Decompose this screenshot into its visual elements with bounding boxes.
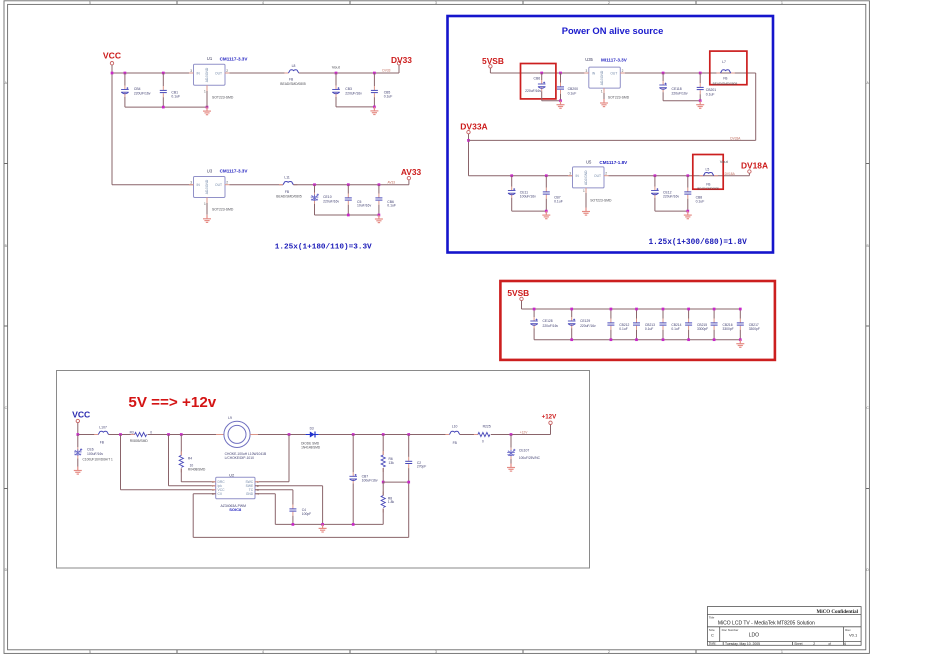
svg-text:220uF/16v: 220uF/16v [663, 195, 679, 199]
svg-text:220uF/16v: 220uF/16v [672, 91, 688, 95]
svg-text:5: 5 [89, 650, 91, 654]
svg-text:2: 2 [605, 172, 607, 176]
svg-text:L11: L11 [284, 175, 290, 179]
svg-text:U2: U2 [229, 472, 235, 477]
svg-text:5VSB: 5VSB [507, 288, 529, 298]
svg-text:100uF/16v: 100uF/16v [87, 452, 103, 456]
svg-text:3: 3 [569, 172, 571, 176]
svg-text:2: 2 [813, 642, 815, 646]
svg-text:Tuesday, May 10, 2005: Tuesday, May 10, 2005 [725, 642, 760, 646]
svg-text:DV18A: DV18A [741, 160, 768, 170]
svg-text:0.1uF: 0.1uF [554, 199, 563, 203]
svg-text:1: 1 [204, 202, 206, 206]
svg-text:CE118: CE118 [672, 87, 682, 91]
svg-text:CB201: CB201 [706, 88, 716, 92]
svg-text:4: 4 [262, 1, 264, 5]
svg-text:DV33A: DV33A [730, 136, 741, 140]
svg-text:5: 5 [89, 1, 91, 5]
svg-text:0.1uF: 0.1uF [568, 91, 577, 95]
svg-text:ADJ/GND: ADJ/GND [205, 67, 209, 82]
svg-text:Sheet: Sheet [794, 642, 802, 646]
svg-text:100uF/16v: 100uF/16v [362, 478, 378, 482]
svg-text:L8: L8 [292, 64, 296, 68]
svg-text:13k: 13k [389, 461, 395, 465]
svg-text:220uF/16v: 220uF/16v [525, 89, 541, 93]
svg-text:0.1uF: 0.1uF [171, 94, 180, 98]
svg-text:MiCO LCD TV - MediaTek MT8205: MiCO LCD TV - MediaTek MT8205 Solution [718, 621, 815, 627]
svg-text:+12V: +12V [520, 431, 528, 435]
svg-text:SOT223-SMD: SOT223-SMD [212, 208, 234, 212]
svg-text:OUT: OUT [215, 183, 222, 187]
svg-text:3: 3 [190, 181, 192, 185]
svg-text:220uF/16v: 220uF/16v [323, 199, 339, 203]
svg-text:Rev: Rev [845, 628, 851, 632]
svg-text:0: 0 [150, 430, 152, 434]
svg-text:L9: L9 [228, 416, 232, 420]
svg-text:Date:: Date: [709, 642, 717, 646]
svg-text:2: 2 [226, 69, 228, 73]
svg-text:of: of [828, 642, 831, 646]
svg-text:CB3: CB3 [345, 87, 352, 91]
svg-text:OUT: OUT [594, 174, 601, 178]
svg-text:Vout: Vout [332, 64, 341, 69]
svg-text:VCC: VCC [103, 51, 121, 61]
svg-text:ADJ/GND: ADJ/GND [600, 70, 604, 85]
svg-text:0.1uF: 0.1uF [619, 327, 627, 331]
svg-text:BEAD/SMD/0805: BEAD/SMD/0805 [276, 195, 302, 199]
svg-text:VCC: VCC [72, 410, 90, 420]
svg-text:CB4: CB4 [134, 87, 141, 91]
svg-text:U1: U1 [207, 56, 213, 61]
svg-text:SOT223-SMD: SOT223-SMD [590, 199, 612, 203]
svg-text:CE11: CE11 [520, 190, 528, 194]
svg-text:Title: Title [709, 615, 715, 619]
svg-text:BEAD/SMD0805: BEAD/SMD0805 [697, 187, 719, 191]
svg-text:270pF: 270pF [417, 465, 426, 469]
svg-text:R0408/SMD: R0408/SMD [188, 467, 206, 471]
svg-text:220UF/16v: 220UF/16v [345, 91, 362, 95]
svg-text:3: 3 [586, 69, 588, 73]
svg-text:SOT223-SMD: SOT223-SMD [608, 95, 630, 99]
svg-text:ADJ/GND: ADJ/GND [205, 179, 209, 194]
svg-text:+12V: +12V [542, 414, 557, 421]
svg-text:CM1117-1.8V: CM1117-1.8V [599, 160, 628, 165]
svg-text:1: 1 [583, 189, 585, 193]
svg-text:R3: R3 [130, 430, 134, 434]
svg-text:1.25x(1+180/110)=3.3V: 1.25x(1+180/110)=3.3V [275, 243, 372, 251]
svg-text:L107: L107 [99, 426, 107, 430]
svg-text:U3: U3 [207, 168, 213, 173]
svg-text:2: 2 [226, 181, 228, 185]
svg-text:3: 3 [435, 650, 437, 654]
svg-text:5V ==> +12v: 5V ==> +12v [128, 394, 216, 411]
svg-text:L7: L7 [722, 60, 726, 64]
svg-text:3: 3 [190, 69, 192, 73]
svg-text:DV18A: DV18A [725, 172, 736, 176]
svg-text:1.25x(1+300/680)=1.8V: 1.25x(1+300/680)=1.8V [649, 239, 748, 247]
svg-text:DV33: DV33 [382, 69, 390, 73]
svg-text:U35: U35 [585, 57, 593, 62]
svg-text:R225: R225 [483, 425, 491, 429]
svg-text:V0.1: V0.1 [849, 632, 858, 637]
svg-text:0.1uF: 0.1uF [706, 92, 715, 96]
svg-text:3: 3 [435, 1, 437, 5]
svg-text:1: 1 [601, 89, 603, 93]
svg-text:100uF/25V/NC: 100uF/25V/NC [519, 456, 541, 460]
svg-text:LDO: LDO [749, 633, 759, 639]
svg-text:MiCO Confidential: MiCO Confidential [816, 610, 858, 615]
svg-text:3300pF: 3300pF [723, 327, 734, 331]
svg-text:2: 2 [608, 1, 610, 5]
svg-text:R4: R4 [188, 456, 192, 460]
svg-text:GND: GND [246, 492, 254, 496]
svg-text:Size: Size [709, 628, 715, 632]
svg-text:1: 1 [204, 90, 206, 94]
svg-text:CE129: CE129 [580, 319, 590, 323]
svg-text:Vout: Vout [720, 159, 729, 164]
svg-text:CM1117-3.3V: CM1117-3.3V [220, 169, 249, 174]
svg-text:CE107: CE107 [519, 448, 529, 452]
svg-text:5VSB: 5VSB [482, 56, 504, 66]
svg-text:DV33A: DV33A [460, 122, 487, 132]
svg-text:Doc Number: Doc Number [722, 628, 739, 632]
svg-text:Power ON alive source: Power ON alive source [562, 25, 664, 36]
svg-text:1: 1 [781, 650, 783, 654]
svg-text:L/CHOKE/DIP-1010: L/CHOKE/DIP-1010 [225, 456, 254, 460]
svg-text:ADJ/GND: ADJ/GND [584, 170, 588, 185]
svg-text:CE128: CE128 [543, 319, 553, 323]
svg-text:0.1uF: 0.1uF [387, 204, 396, 208]
svg-text:BEAD/SMD/0805: BEAD/SMD/0805 [280, 82, 306, 86]
svg-text:OUT: OUT [215, 71, 222, 75]
svg-text:6: 6 [844, 642, 846, 646]
svg-text:1: 1 [781, 1, 783, 5]
svg-text:100uF/16v: 100uF/16v [520, 195, 536, 199]
svg-text:BEAD/SMD/0805: BEAD/SMD/0805 [713, 82, 738, 86]
svg-text:SOIC8: SOIC8 [229, 507, 242, 512]
svg-text:CII: CII [218, 492, 222, 496]
svg-text:1N4148/SMD: 1N4148/SMD [301, 445, 321, 449]
svg-text:L5: L5 [706, 168, 710, 172]
svg-text:L10: L10 [452, 425, 458, 429]
svg-text:C: C [711, 632, 714, 637]
svg-text:2: 2 [608, 650, 610, 654]
svg-text:CM1117-3.3V: CM1117-3.3V [220, 56, 249, 61]
svg-text:AV33: AV33 [401, 167, 422, 177]
svg-text:220uF/16v: 220uF/16v [543, 324, 559, 328]
svg-text:U5: U5 [586, 159, 592, 164]
svg-text:C100UF16V/D6H/T 1: C100UF16V/D6H/T 1 [83, 457, 113, 461]
svg-text:100pF: 100pF [302, 512, 311, 516]
svg-text:3300pF: 3300pF [697, 327, 708, 331]
svg-text:220UF/16v: 220UF/16v [134, 91, 151, 95]
svg-text:AV33: AV33 [388, 180, 396, 184]
svg-text:0: 0 [482, 440, 484, 444]
svg-text:4: 4 [262, 650, 264, 654]
svg-text:CE10: CE10 [323, 195, 332, 199]
svg-text:0.1uF: 0.1uF [696, 199, 705, 203]
svg-text:0.1uF: 0.1uF [384, 94, 393, 98]
svg-text:OUT: OUT [610, 71, 617, 75]
svg-text:10uF/16v: 10uF/16v [357, 204, 371, 208]
svg-text:SOT223-SMD: SOT223-SMD [212, 95, 234, 99]
svg-text:1.8k: 1.8k [388, 500, 395, 504]
svg-text:CB6: CB6 [534, 77, 541, 81]
svg-text:220uF/16v: 220uF/16v [580, 324, 596, 328]
svg-text:MI1117-3.3V: MI1117-3.3V [601, 57, 628, 62]
svg-text:D3: D3 [310, 426, 314, 430]
svg-text:2: 2 [622, 69, 624, 73]
svg-text:CB200: CB200 [568, 87, 578, 91]
svg-text:0.1uF: 0.1uF [671, 327, 679, 331]
svg-text:R0805/SMD: R0805/SMD [130, 439, 149, 443]
svg-text:0.1uF: 0.1uF [645, 327, 653, 331]
svg-text:3300pF: 3300pF [749, 327, 760, 331]
svg-text:DV33: DV33 [391, 55, 412, 65]
